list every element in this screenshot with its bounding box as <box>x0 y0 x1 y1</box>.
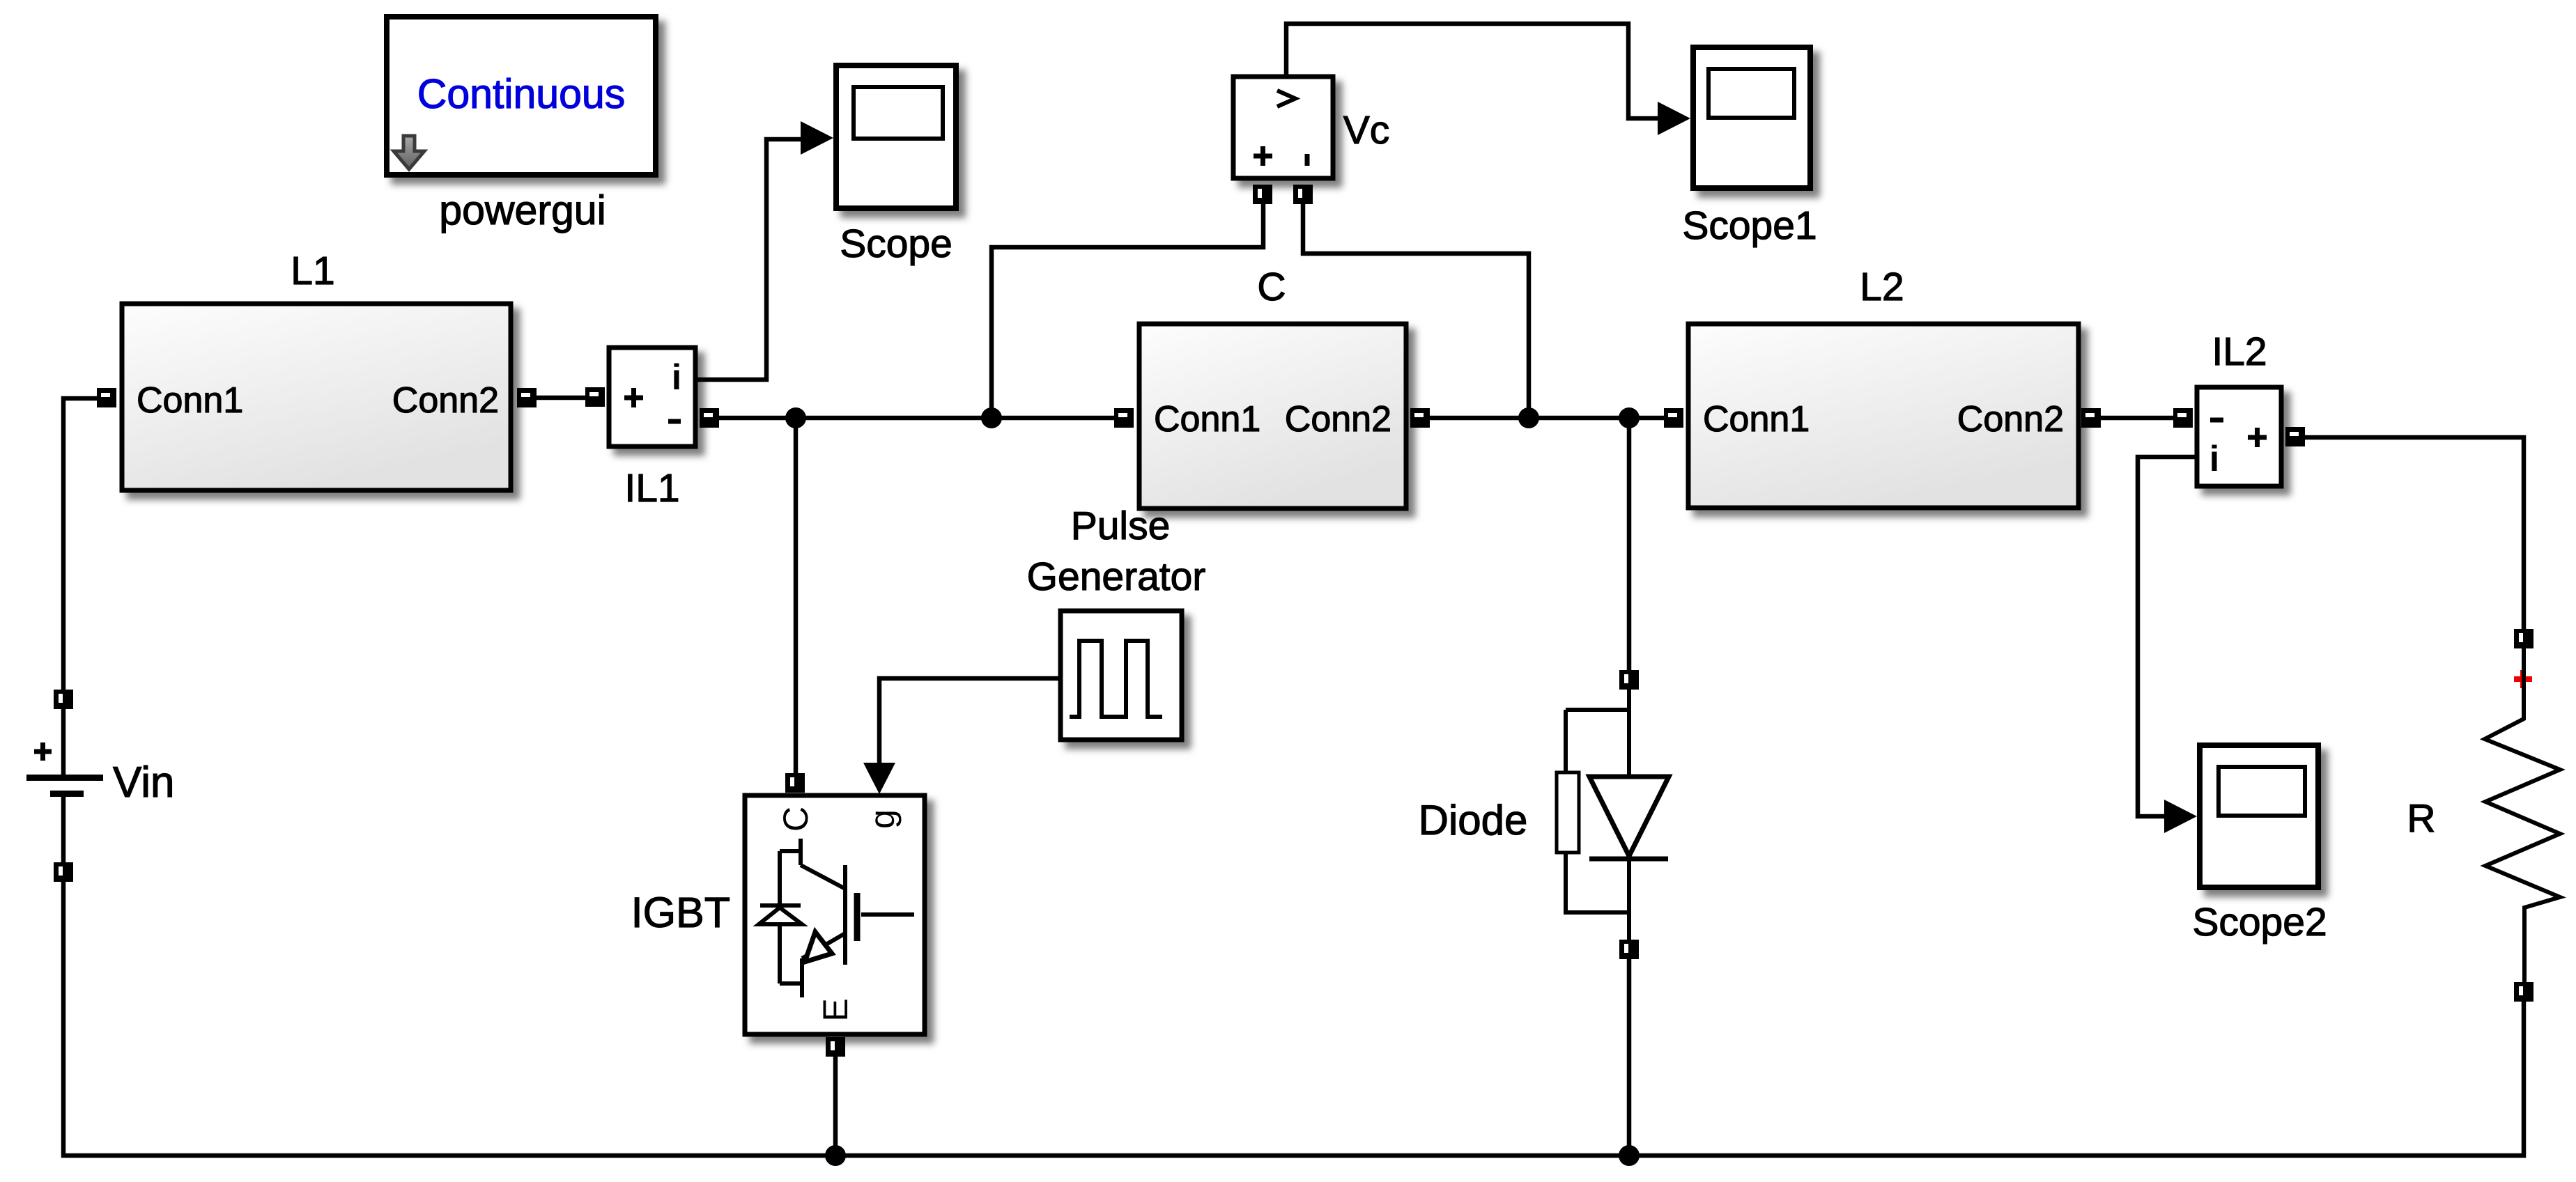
svg-text:Vin: Vin <box>113 759 175 807</box>
svg-text:L1: L1 <box>291 249 334 293</box>
svg-text:Conn1: Conn1 <box>137 380 243 421</box>
svg-text:IL1: IL1 <box>624 466 679 511</box>
svg-text:Continuous: Continuous <box>417 71 626 117</box>
svg-text:Vc: Vc <box>1343 108 1390 153</box>
svg-text:Scope: Scope <box>840 221 952 266</box>
svg-text:L2: L2 <box>1860 265 1904 309</box>
svg-text:Conn2: Conn2 <box>1957 399 2064 440</box>
svg-text:g: g <box>863 809 902 829</box>
svg-text:i: i <box>2209 439 2219 479</box>
svg-text:Conn1: Conn1 <box>1154 399 1260 440</box>
svg-text:Conn2: Conn2 <box>1285 399 1391 440</box>
svg-text:Scope1: Scope1 <box>1682 203 1817 248</box>
svg-text:R: R <box>2407 796 2435 841</box>
svg-text:Pulse: Pulse <box>1071 504 1171 548</box>
svg-text:Generator: Generator <box>1027 554 1206 599</box>
svg-text:i: i <box>672 357 681 398</box>
svg-text:Diode: Diode <box>1419 797 1528 843</box>
svg-text:C: C <box>776 807 815 832</box>
svg-text:Conn2: Conn2 <box>392 380 499 421</box>
svg-text:Conn1: Conn1 <box>1703 399 1810 440</box>
svg-text:E: E <box>816 998 855 1021</box>
svg-text:IL2: IL2 <box>2212 329 2267 374</box>
svg-text:powergui: powergui <box>439 187 606 233</box>
svg-text:C: C <box>1257 265 1286 309</box>
svg-text:IGBT: IGBT <box>631 889 730 936</box>
svg-text:Scope2: Scope2 <box>2192 900 2327 944</box>
